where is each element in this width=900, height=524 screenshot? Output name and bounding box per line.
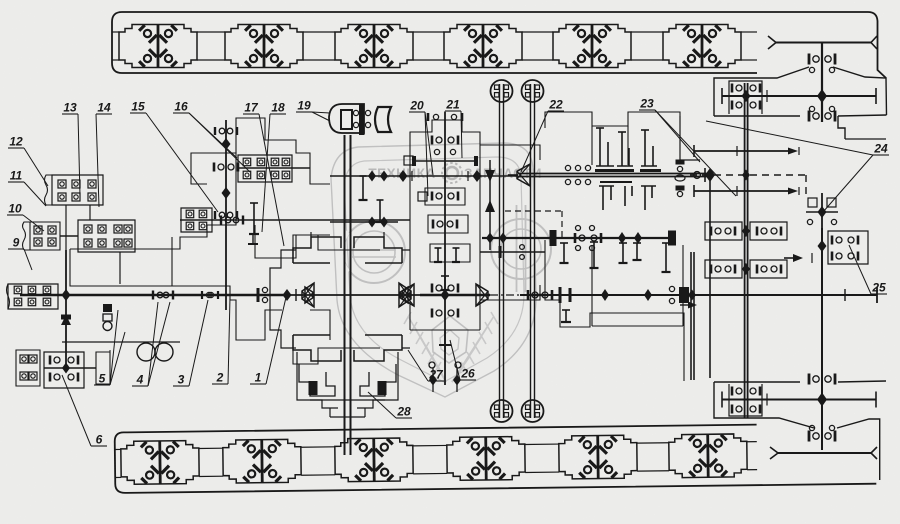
column gear box 1 [425, 188, 465, 205]
center column shaft [444, 112, 446, 385]
dashed PTO vertical center [505, 210, 562, 212]
gearbox pair boxes on drive shaft lower [705, 260, 742, 278]
small gears right of S1 [676, 160, 685, 165]
small square gear marker [404, 156, 413, 165]
track link module B3 [335, 438, 414, 482]
range gear cluster 15-16 [238, 155, 292, 182]
brake housing bottom [299, 364, 335, 396]
cross gear on x226 [213, 163, 216, 172]
lower shaft 17 cluster [180, 219, 410, 221]
hanging oil pump symbol [103, 304, 112, 312]
gear forks above S1 [596, 128, 614, 166]
top final drive housing [714, 67, 809, 116]
left input gears on main shaft [8, 284, 58, 309]
track link module B4 [447, 436, 526, 480]
top track strip rails [112, 31, 119, 33]
track link module T6 [663, 25, 741, 68]
vertical shaft to bottom final drive [821, 228, 823, 450]
S1 bevel gear [705, 168, 715, 182]
top final-drive input shaft [821, 43, 823, 123]
track link module B2 [223, 439, 302, 483]
flywheel shaft vertical [344, 135, 346, 455]
clutch housing outline [293, 235, 380, 263]
gearbox rear housing outline [545, 112, 680, 128]
gear pair above top final drive [808, 54, 811, 65]
right track drive shaft (vertical) [744, 139, 746, 382]
gear cluster 25 [828, 231, 868, 264]
rings on S1 [575, 165, 580, 170]
gear pair below bottom final drive [808, 431, 811, 442]
S2 intermediate shaft [482, 237, 676, 239]
column bottom cluster [429, 362, 435, 368]
track link module T1 [119, 25, 197, 68]
column main-axis gear [441, 289, 450, 301]
left gear block 13-14 [52, 175, 103, 205]
left gear cluster on track drive shaft (bottom) [744, 382, 746, 418]
top track band outline [112, 12, 886, 78]
bottom final drive housing [714, 382, 814, 428]
oil filler [252, 234, 254, 244]
watermark letter backdrop [341, 205, 551, 292]
watermark shield [331, 143, 536, 397]
roller pair top left [491, 80, 513, 102]
track link module T3 [335, 25, 413, 68]
PTO through shafts [499, 84, 501, 418]
watermark wheat sheaf [404, 312, 498, 382]
roller pair top right [522, 80, 544, 102]
vertical shaft x226 [225, 120, 227, 310]
column bottom stem [444, 330, 446, 352]
roller pair bottom right [522, 400, 544, 422]
center column housing [410, 120, 480, 330]
spline shaft with arrow [489, 160, 491, 250]
gears above flywheel [368, 171, 376, 182]
left vertical shaft [65, 250, 67, 372]
column gear box 3 [430, 244, 470, 262]
column bracket 4 [444, 276, 446, 290]
bevel cross gear cluster 24 [821, 193, 823, 228]
track link module T4 [444, 25, 522, 68]
column gear box 2 [428, 215, 468, 233]
gears on S3 in gearbox [527, 290, 530, 300]
upper crossing shaft y176 [398, 175, 518, 177]
left lower cluster 6 [44, 352, 84, 388]
track link module T5 [553, 25, 631, 68]
gearbox pair boxes on drive shaft upper [705, 222, 742, 240]
stems below S2 [593, 242, 595, 268]
left gear cluster on track drive shaft (top) [744, 83, 746, 139]
ring on dashed line [694, 172, 701, 179]
track link module T2 [225, 25, 303, 68]
PTO output arrow [688, 302, 697, 309]
dashed PTO line right [690, 174, 806, 176]
T stem upper center [565, 310, 567, 322]
flywheel upper flange [293, 237, 341, 263]
gear forks below S1 [599, 186, 614, 210]
track link module B5 [559, 435, 638, 479]
gearbox housing outline [70, 153, 236, 249]
upper gearbox shaft S1 [518, 173, 710, 175]
scan noise overlay [0, 0, 1, 1]
track link module B1 [121, 440, 200, 484]
cone clutch on S1 [517, 164, 530, 186]
bevel shaft from gearbox down [690, 252, 692, 380]
right half-shaft lower [694, 190, 788, 192]
rear axle housing outline [680, 116, 700, 160]
left gear row 9-11 [30, 222, 60, 250]
bottom final drive bevel gear [817, 393, 827, 407]
left block connections [65, 205, 67, 250]
bottom track band [115, 423, 877, 493]
clutch pressure cones [302, 283, 314, 307]
gears on main shaft left [152, 291, 154, 300]
flywheel lower flange [293, 335, 341, 361]
top final drive axis [722, 95, 876, 97]
top sprocket fork [768, 36, 776, 49]
bevel at S3 end [688, 290, 696, 301]
right half-shaft upper [694, 150, 788, 152]
roller pair bottom left [491, 400, 513, 422]
track link module B6 [669, 434, 748, 478]
clutch bell outline [270, 250, 296, 348]
steering unit 19 [329, 104, 364, 133]
gear pair above bottom final drive [808, 374, 811, 385]
support rollers pair [62, 341, 180, 343]
top final drive bevel gear [817, 89, 827, 103]
column top stub gear [433, 114, 438, 119]
brake housing box [297, 352, 398, 400]
bottom sprocket fork [770, 447, 778, 459]
cones flanking center column [402, 284, 414, 306]
center column gear stack [431, 136, 434, 145]
bottom final drive axis [722, 399, 876, 401]
column output shaft [480, 251, 545, 253]
main shaft S3 [20, 294, 290, 296]
gear pair below top final drive [809, 106, 814, 111]
